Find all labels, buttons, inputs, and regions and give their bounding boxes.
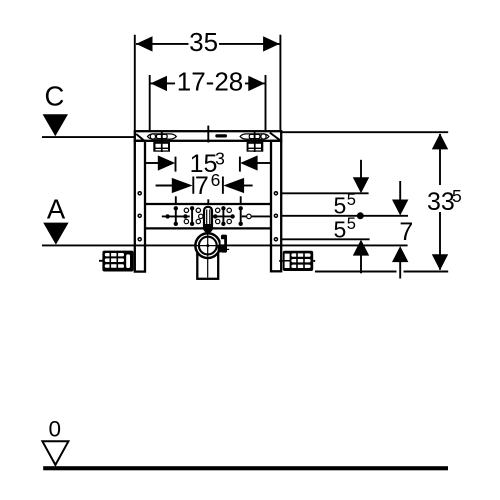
svg-text:7: 7: [195, 172, 209, 200]
svg-text:35: 35: [189, 27, 218, 57]
svg-text:3: 3: [215, 149, 225, 169]
svg-text:5: 5: [334, 216, 347, 242]
svg-text:6: 6: [211, 170, 221, 190]
svg-text:0: 0: [49, 417, 62, 442]
svg-text:33: 33: [427, 188, 455, 216]
svg-text:17-28: 17-28: [177, 67, 244, 97]
svg-text:7: 7: [399, 218, 413, 246]
svg-text:5: 5: [347, 191, 356, 209]
svg-text:C: C: [44, 80, 64, 111]
svg-text:A: A: [47, 194, 66, 225]
svg-text:5: 5: [347, 215, 356, 233]
svg-text:5: 5: [334, 193, 347, 219]
svg-text:5: 5: [452, 186, 462, 206]
